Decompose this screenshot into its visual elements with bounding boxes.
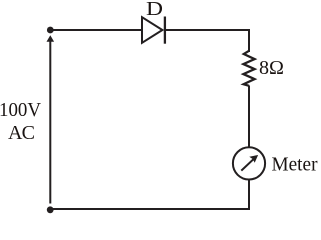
wire meter to bottom-right corner	[52, 180, 249, 210]
node top-left junction	[47, 27, 54, 34]
meter M1	[233, 147, 265, 179]
wire resistor to meter	[248, 86, 250, 148]
svg-text:D: D	[146, 0, 163, 20]
resistor 8ohm zigzag	[243, 51, 254, 86]
node bottom-left junction	[47, 206, 54, 213]
svg-text:100V: 100V	[0, 99, 42, 121]
diode D	[142, 17, 165, 44]
arrow current direction up	[47, 35, 55, 42]
svg-text:8Ω: 8Ω	[259, 57, 284, 79]
wire left vertical (AC source branch)	[49, 41, 51, 204]
svg-text:Meter: Meter	[272, 154, 318, 176]
svg-text:AC: AC	[8, 122, 35, 144]
wire top-left horizontal (node A to diode anode)	[52, 29, 142, 31]
wire diode cathode to top-right corner	[166, 30, 249, 52]
